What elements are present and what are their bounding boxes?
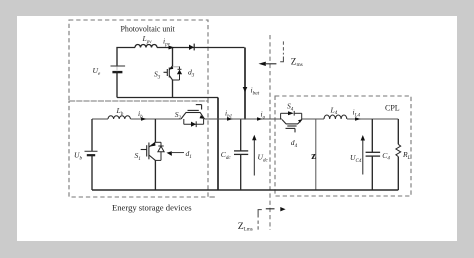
svg-text:Energy storage devices: Energy storage devices — [112, 202, 192, 212]
battery Ue — [111, 66, 126, 72]
vertical x244.5 with i_bat — [244, 48, 246, 120]
PV unit dashed box — [69, 20, 208, 101]
S2 transistor (horizontal) — [181, 105, 205, 119]
U_dc annotation arrow — [253, 139, 255, 176]
battery Ub branch — [91, 119, 93, 151]
main bus y=119 — [92, 118, 398, 120]
arrow i_L4 — [355, 117, 361, 121]
Z_Lms annotation — [266, 208, 275, 210]
IGBT S3 — [164, 65, 174, 80]
arrow i_b1 — [227, 117, 233, 121]
Energy storage dashed box — [69, 101, 208, 197]
R_L branch — [397, 119, 399, 144]
ES box bottom dash overshoot — [210, 196, 215, 198]
transistor S3 branch — [172, 48, 174, 67]
wire PV top — [117, 48, 135, 98]
vertical x218 — [217, 98, 219, 191]
CPL dashed box — [275, 96, 411, 196]
current arrow i_pv — [169, 46, 175, 50]
diode above S4 — [281, 111, 302, 120]
inductor Lb — [108, 116, 130, 119]
diode d1 (antiparallel S1) — [155, 142, 164, 160]
U_C4 annotation arrow — [362, 140, 364, 175]
C4 branch — [371, 119, 373, 152]
series diode PV out — [189, 44, 194, 51]
svg-text:Photovoltaic unit: Photovoltaic unit — [121, 25, 176, 34]
Z_ms annotation — [266, 63, 277, 65]
IGBT S1 — [141, 142, 156, 161]
inductor L4 — [324, 115, 347, 119]
arrow i_o — [257, 117, 263, 121]
z branch — [315, 119, 317, 190]
separator dashed line — [269, 35, 271, 230]
C_dc — [234, 150, 248, 152]
diode under S2 — [184, 119, 204, 127]
S1 branch — [154, 119, 156, 142]
svg-text:z: z — [311, 151, 316, 162]
d1 pointer arrow — [167, 151, 172, 156]
svg-text:CPL: CPL — [385, 104, 400, 113]
inductor Lpv — [135, 45, 157, 48]
diode d3 (PV antiparallel) — [173, 67, 183, 81]
bottom rail — [92, 189, 398, 191]
PV bottom wire — [117, 97, 218, 99]
arrow i_b — [141, 117, 147, 121]
S4 transistor (horizontal, CPL) — [282, 119, 302, 132]
